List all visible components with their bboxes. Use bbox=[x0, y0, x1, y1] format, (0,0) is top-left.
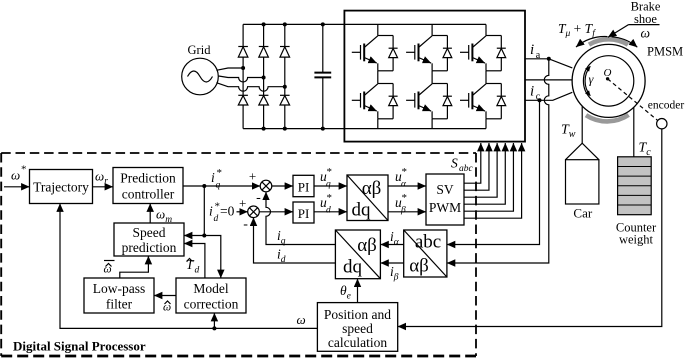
wire phase b output bbox=[525, 79, 572, 81]
label omega hat bbox=[163, 301, 171, 314]
svg-text:i: i bbox=[211, 170, 215, 185]
label S_abc bbox=[451, 156, 474, 175]
svg-text:abc: abc bbox=[459, 164, 474, 174]
wire filtered omega LPF to Speed prediction bbox=[120, 256, 149, 278]
label omega bar hat bbox=[104, 261, 115, 276]
block PI (d axis) bbox=[293, 202, 314, 223]
svg-text:i: i bbox=[530, 84, 534, 100]
label T_d hat bbox=[186, 257, 200, 276]
label Brake shoe with underline and leader arrow bbox=[608, 0, 661, 37]
wire i_beta abc to dq bbox=[380, 262, 403, 264]
wire phase B grid to rectifier (hop over leg1) bbox=[219, 76, 264, 82]
rectifier diode bottom leg 2 bbox=[259, 95, 269, 105]
svg-text:q: q bbox=[326, 180, 331, 190]
svg-text:controller: controller bbox=[122, 187, 175, 202]
wire omega hat Model correction to LPF bbox=[154, 295, 176, 297]
summing junction d-axis bbox=[239, 196, 259, 233]
label i_a bbox=[530, 42, 541, 61]
label gamma bbox=[589, 73, 595, 87]
wire phase C grid to rectifier (hops over legs 1,2) bbox=[216, 83, 284, 92]
svg-text:i: i bbox=[209, 204, 213, 219]
wire omega feedback to Trajectory and Model correction bbox=[60, 204, 317, 331]
svg-text:Prediction: Prediction bbox=[120, 171, 176, 186]
wire i_q* reference to summing junction bbox=[183, 184, 260, 188]
DC link capacitor bbox=[314, 24, 331, 128]
wire i_c sense line to abc block bbox=[447, 100, 540, 244]
IGBT Q2 with diode (bottom, leg 1) bbox=[352, 84, 398, 119]
block SV PWM bbox=[426, 174, 464, 225]
rectifier diode bottom leg 1 bbox=[238, 95, 248, 105]
block Speed prediction bbox=[114, 223, 184, 256]
svg-text:PI: PI bbox=[298, 180, 310, 195]
label i_d*=0 bbox=[209, 201, 235, 225]
wire omega_m Speed prediction to Prediction controller bbox=[149, 204, 151, 224]
wire summing q to PI bbox=[272, 185, 293, 187]
svg-text:PMSM: PMSM bbox=[647, 45, 683, 59]
label i_alpha bbox=[390, 229, 400, 248]
block Low-pass filter bbox=[84, 278, 154, 313]
label omega feedback bbox=[297, 312, 306, 327]
label omega* bbox=[11, 164, 27, 183]
label T_mu + T_f bbox=[558, 21, 596, 39]
label i_q feedback bbox=[277, 228, 286, 247]
svg-text:speed: speed bbox=[342, 321, 373, 336]
block alphabeta/dq inverse transform bbox=[347, 175, 388, 221]
wire DC- bottom rail bbox=[243, 128, 486, 130]
block Model correction bbox=[176, 278, 246, 313]
label i_d feedback bbox=[277, 247, 286, 266]
wire i_a sense line with hops to abc block bbox=[447, 59, 549, 263]
wire i_d* to summing junction bbox=[237, 211, 248, 213]
svg-text:Low-pass: Low-pass bbox=[93, 281, 146, 296]
label i_q* bbox=[211, 167, 222, 191]
PMSM sheave outer circle bbox=[572, 44, 645, 117]
svg-text:SV: SV bbox=[436, 182, 454, 197]
svg-text:Digital Signal Processor: Digital Signal Processor bbox=[13, 339, 146, 354]
wire rope to car bbox=[581, 106, 583, 143]
rectifier leg 1 wire bbox=[242, 24, 244, 128]
encoder circle bbox=[657, 119, 667, 129]
wire Trajectory to Prediction controller bbox=[93, 186, 114, 188]
wire rope to counterweight bbox=[633, 107, 635, 157]
wire i_alpha abc to dq bbox=[380, 244, 403, 246]
svg-text:*: * bbox=[217, 167, 223, 179]
wire i_d feedback to summing d bbox=[254, 218, 336, 263]
svg-text:-: - bbox=[243, 217, 248, 232]
svg-text:αβ: αβ bbox=[357, 235, 377, 256]
wire PI q to transform bbox=[314, 185, 347, 187]
label omega_r bbox=[95, 169, 108, 187]
rectifier leg 2 wire bbox=[263, 24, 265, 128]
svg-text:β: β bbox=[400, 206, 406, 216]
AC grid source bbox=[182, 43, 219, 95]
svg-text:*: * bbox=[21, 164, 27, 176]
svg-text:+: + bbox=[239, 196, 246, 211]
label u_q* bbox=[320, 166, 332, 190]
block dq/alphabeta transform bbox=[335, 230, 380, 279]
junction dots rectifier bbox=[241, 22, 325, 130]
svg-text:αβ: αβ bbox=[409, 256, 429, 277]
label Car bbox=[573, 206, 592, 221]
svg-text:correction: correction bbox=[184, 297, 239, 312]
svg-text:ω: ω bbox=[297, 312, 306, 327]
label PMSM bbox=[647, 45, 683, 59]
wires S_abc gate signals SV PWM to inverter bbox=[464, 143, 522, 218]
inverter leg 2 wire segments bbox=[431, 24, 433, 128]
label encoder bbox=[648, 100, 685, 112]
svg-text:Model: Model bbox=[193, 281, 228, 296]
svg-text:PWM: PWM bbox=[429, 200, 461, 215]
IGBT Q3 with diode (top, leg 2) bbox=[406, 36, 452, 71]
label omega_m bbox=[156, 207, 172, 226]
svg-text:filter: filter bbox=[106, 297, 133, 312]
wire phase A grid to rectifier bbox=[216, 68, 243, 70]
block Prediction controller bbox=[113, 168, 183, 204]
svg-text:*: * bbox=[402, 166, 408, 178]
rectifier diode top leg 3 bbox=[280, 47, 290, 58]
label u_d* bbox=[320, 192, 332, 216]
block Position and speed calculation bbox=[317, 303, 397, 352]
rectifier diode bottom leg 3 bbox=[280, 95, 290, 105]
svg-text:a: a bbox=[536, 50, 541, 61]
svg-text:prediction: prediction bbox=[122, 240, 177, 255]
label Digital Signal Processor bbox=[13, 339, 146, 354]
center O with dot bbox=[604, 67, 612, 81]
svg-text:ω: ω bbox=[104, 264, 112, 276]
inverter box bbox=[344, 11, 525, 142]
label i_beta bbox=[390, 264, 399, 283]
dashed radius line to encoder bbox=[608, 79, 658, 121]
svg-text:*: * bbox=[327, 192, 333, 204]
svg-text:shoe: shoe bbox=[634, 12, 657, 26]
label i_c bbox=[530, 84, 541, 103]
svg-text:dq: dq bbox=[343, 257, 363, 278]
wire theta_e to transform bbox=[357, 279, 359, 303]
svg-text:abc: abc bbox=[415, 232, 441, 253]
rectifier diode top leg 1 bbox=[238, 47, 248, 58]
svg-text:encoder: encoder bbox=[648, 100, 685, 112]
svg-text:*: * bbox=[327, 166, 333, 178]
svg-text:Car: Car bbox=[573, 206, 592, 221]
wire phase c output i_c bbox=[525, 92, 572, 102]
wire PI d to transform bbox=[314, 211, 347, 213]
svg-text:weight: weight bbox=[619, 233, 654, 247]
label theta_e bbox=[340, 283, 351, 302]
svg-text:S: S bbox=[451, 156, 458, 171]
svg-text:PI: PI bbox=[298, 206, 310, 221]
car sling triangle bbox=[566, 143, 599, 160]
inverter leg 1 wire segments bbox=[377, 24, 379, 128]
label T_c bbox=[639, 141, 652, 159]
svg-text:q: q bbox=[216, 181, 221, 191]
wire encoder feedback to position calculation bbox=[398, 129, 662, 327]
svg-text:ω: ω bbox=[641, 26, 651, 41]
label omega (rotation) bbox=[641, 26, 651, 41]
svg-text:ω: ω bbox=[163, 302, 171, 314]
label Counter weight bbox=[616, 221, 657, 247]
svg-text:d: d bbox=[326, 206, 331, 216]
wire T_d hat from Model correction to Speed prediction bbox=[184, 244, 205, 279]
wire i_q feedback with hop to summing q bbox=[266, 192, 335, 245]
wire summing d to PI bbox=[259, 211, 293, 213]
counterweight stack bbox=[618, 157, 652, 215]
svg-text:*: * bbox=[402, 192, 408, 204]
inverter leg 3 wire segments bbox=[485, 24, 487, 128]
summing junction q-axis bbox=[249, 169, 272, 206]
svg-text:Speed: Speed bbox=[133, 225, 166, 240]
torque arrow T_mu + T_f bbox=[576, 37, 608, 47]
svg-text:-: - bbox=[256, 191, 261, 206]
block PI (q axis) bbox=[293, 175, 314, 196]
IGBT Q5 with diode (top, leg 3) bbox=[460, 36, 506, 71]
svg-text:Position and: Position and bbox=[324, 307, 391, 322]
wire transform to SV PWM (alpha) bbox=[388, 185, 426, 187]
wire omega* input bbox=[4, 186, 30, 188]
svg-text:+: + bbox=[249, 169, 256, 184]
brake shoe gray arc top bbox=[589, 39, 628, 44]
wire DC+ top rail bbox=[243, 23, 486, 25]
rectifier diode top leg 2 bbox=[259, 47, 269, 58]
svg-text:i: i bbox=[530, 42, 534, 58]
label T_w bbox=[561, 123, 576, 141]
label u_alpha* bbox=[395, 166, 407, 190]
wire phase a output i_a bbox=[525, 57, 572, 68]
rectifier leg 3 wire bbox=[284, 24, 286, 128]
svg-text:αβ: αβ bbox=[362, 178, 382, 199]
svg-text:Trajectory: Trajectory bbox=[33, 180, 89, 195]
svg-text:ω: ω bbox=[11, 168, 20, 183]
svg-text:d: d bbox=[195, 266, 200, 276]
svg-text:=0: =0 bbox=[220, 204, 235, 219]
block Trajectory bbox=[30, 170, 93, 204]
brake shoe gray arc bottom bbox=[586, 115, 629, 122]
label u_beta* bbox=[395, 192, 407, 216]
wire i_q* branch down to Speed prediction and Model correction bbox=[184, 186, 221, 278]
rotation arrow omega bbox=[612, 37, 638, 47]
DSP dashed border bbox=[1, 153, 476, 356]
svg-text:dq: dq bbox=[352, 200, 372, 221]
svg-text:d: d bbox=[214, 214, 219, 224]
IGBT Q6 with diode (bottom, leg 3) bbox=[460, 84, 506, 119]
car box bbox=[566, 160, 599, 204]
svg-text:Grid: Grid bbox=[188, 43, 212, 57]
PMSM rotor inner circle bbox=[583, 56, 633, 106]
block abc/alphabeta transform bbox=[404, 230, 447, 277]
wire transform to SV PWM (beta) bbox=[388, 211, 426, 213]
gamma angle arc with arrows bbox=[585, 66, 590, 96]
IGBT Q4 with diode (bottom, leg 2) bbox=[406, 84, 452, 119]
svg-text:calculation: calculation bbox=[328, 335, 387, 350]
IGBT Q1 with diode (top, leg 1) bbox=[352, 36, 398, 71]
